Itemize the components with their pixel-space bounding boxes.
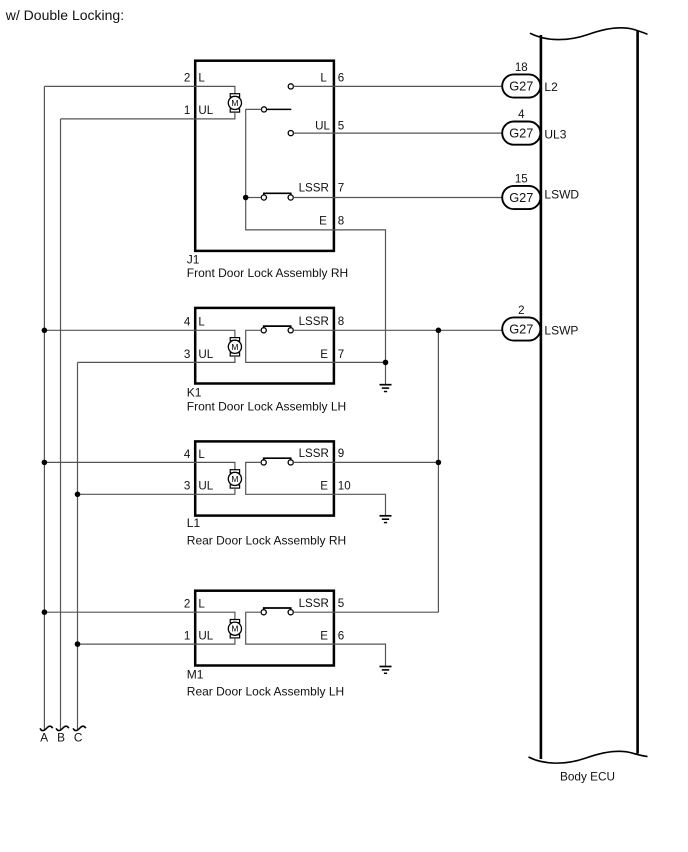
svg-text:J1: J1 (187, 252, 200, 266)
K1 name label (187, 400, 346, 414)
M1 unlock motor M (228, 620, 241, 638)
junction LSWP bus / L1 pin9 (436, 460, 442, 466)
svg-text:1: 1 (184, 630, 190, 643)
K1 pin 7 number (338, 348, 344, 361)
net LSWD label (544, 188, 579, 202)
node A label (40, 730, 48, 744)
J1 lock motor wire to pin 1 (195, 112, 235, 119)
wire break symbol B (56, 726, 69, 730)
M1 name label (187, 685, 344, 699)
svg-text:C: C (74, 730, 83, 744)
wire A vertical run (43, 86, 45, 729)
svg-text:Front Door Lock Assembly RH: Front Door Lock Assembly RH (187, 266, 348, 280)
svg-text:LSWP: LSWP (544, 324, 578, 338)
svg-text:6: 6 (338, 72, 344, 85)
svg-text:M: M (231, 98, 238, 108)
L1 pin 3 name UL (198, 480, 213, 493)
svg-text:1: 1 (184, 104, 190, 117)
ground G1 (K1/J1 E) (380, 385, 392, 392)
wire LSWP vertical bus (437, 330, 439, 612)
J1 pin 8 number (338, 214, 344, 227)
Body ECU label (560, 769, 615, 783)
ground G2 (L1 E) (380, 516, 392, 523)
svg-text:UL: UL (198, 630, 213, 643)
J1 lock motor M (228, 94, 241, 112)
M1 pin 6 number (338, 630, 344, 643)
K1 pin 8 number (338, 315, 344, 328)
wire ground stub K1 (385, 362, 387, 384)
svg-text:Body ECU: Body ECU (560, 769, 615, 783)
svg-text:L: L (198, 72, 205, 85)
L1 pin 9 number (338, 447, 344, 460)
wire break symbol A (40, 726, 53, 730)
wire L1 pin10 to ground (334, 494, 386, 515)
node C label (74, 730, 83, 744)
svg-text:4: 4 (184, 316, 191, 329)
Body ECU right boundary line (636, 31, 639, 754)
wire M1 pin1 to bus C (78, 643, 196, 645)
wire J1 pin2 to bus A (44, 85, 195, 87)
junction K1 E / J1 E ground (383, 360, 389, 366)
svg-text:E: E (320, 480, 328, 493)
svg-text:3: 3 (184, 480, 190, 493)
wire J1 pin7 to G27-15 (334, 197, 502, 199)
J1 pin 8 name E (319, 214, 327, 227)
svg-text:L: L (198, 598, 205, 611)
J1 wire LSSR switch to pin 7 (293, 197, 334, 199)
L1 unlock motor M (228, 470, 241, 488)
svg-text:6: 6 (338, 630, 344, 643)
L1 lock position switch LSSR (261, 458, 293, 465)
G27 pin 15 number (515, 174, 528, 186)
G27 pin 18 number (515, 62, 528, 74)
wire M1 pin2 to bus A (44, 611, 195, 613)
svg-text:M: M (231, 624, 238, 634)
junction bus C / M1 pin1 (75, 641, 81, 647)
junction bus A / K1 pin4 (42, 328, 48, 334)
wire L1 pin4 to bus A (44, 461, 195, 463)
L1 pin 3 number (184, 480, 190, 493)
K1 reference label (187, 386, 202, 400)
J1 selector arm (267, 108, 292, 110)
connector G27 pin 18 oval (502, 74, 540, 97)
connector box K1 (195, 308, 334, 384)
J1 pin 5 name UL (315, 119, 330, 132)
J1 L position contact (288, 84, 293, 89)
J1 pin 1 number (184, 104, 190, 117)
svg-text:B: B (57, 730, 65, 744)
svg-text:7: 7 (338, 182, 344, 195)
svg-text:7: 7 (338, 348, 344, 361)
M1 pin 6 name E (320, 630, 328, 643)
svg-text:9: 9 (338, 447, 344, 460)
wire L1 pin3 to bus C (78, 493, 196, 495)
L1 wire LSSR switch to pin (293, 461, 334, 463)
svg-text:L: L (198, 448, 205, 461)
M1 reference label (187, 668, 204, 682)
svg-text:UL: UL (315, 119, 330, 132)
J1 pin 6 name L (320, 72, 327, 85)
M1 pin 5 number (338, 597, 344, 610)
Body ECU left boundary line (540, 35, 543, 759)
svg-text:Rear Door Lock Assembly RH: Rear Door Lock Assembly RH (187, 534, 346, 548)
svg-text:2: 2 (184, 72, 190, 85)
svg-text:L: L (320, 72, 327, 85)
svg-text:G27: G27 (509, 79, 533, 94)
wire break symbol C (73, 726, 86, 730)
K1 pin 3 name UL (198, 348, 213, 361)
svg-text:UL: UL (198, 348, 213, 361)
svg-text:Front Door Lock Assembly LH: Front Door Lock Assembly LH (187, 400, 346, 414)
junction bus A / M1 pin2 (42, 609, 48, 615)
Body ECU bottom wavy edge (529, 751, 648, 763)
K1 pin 3 number (184, 348, 190, 361)
connector G27 pin 4 oval (502, 122, 540, 145)
svg-text:G27: G27 (509, 126, 533, 141)
J1 pin 7 name LSSR (299, 182, 329, 195)
connector box J1 (195, 61, 334, 251)
G27 pin 2 number (518, 305, 524, 317)
svg-text:5: 5 (338, 597, 344, 610)
wire J1 pin8 to K1 ground node (334, 230, 386, 363)
title label "w/ Double Locking:" (5, 7, 124, 23)
L1 pin 4 name L (198, 448, 205, 461)
wire J1 pin6 to G27-18 (334, 85, 502, 87)
svg-text:UL: UL (198, 104, 213, 117)
J1 selector common wire (246, 109, 334, 229)
svg-text:5: 5 (338, 119, 344, 132)
M1 pin 1 name UL (198, 630, 213, 643)
K1 motor wire to UL pin (195, 356, 235, 362)
svg-text:LSSR: LSSR (299, 182, 329, 195)
J1 lock motor wire from pin 2 (195, 86, 235, 93)
svg-text:18: 18 (515, 62, 528, 74)
svg-text:M: M (231, 474, 238, 484)
J1 reference label (187, 252, 200, 266)
K1 pin 7 name E (320, 348, 328, 361)
wire B vertical run (60, 119, 62, 729)
svg-text:UL3: UL3 (544, 127, 566, 141)
svg-text:E: E (320, 348, 328, 361)
J1 junction selector/LSSR (243, 195, 249, 201)
M1 lock position switch LSSR (261, 608, 293, 615)
K1 pin 8 name LSSR (299, 315, 329, 328)
svg-text:8: 8 (338, 315, 344, 328)
L1 motor wire from L pin (195, 462, 235, 469)
L1 switch common wire to E pin (246, 462, 334, 494)
svg-text:10: 10 (338, 480, 351, 493)
node B label (57, 730, 65, 744)
wire L1 pin9 to LSWP bus (334, 461, 439, 463)
ground G3 (M1 E) (380, 667, 392, 674)
L1 name label (187, 534, 346, 548)
L1 pin 9 name LSSR (299, 447, 329, 460)
svg-text:A: A (40, 730, 48, 744)
M1 wire LSSR switch to pin (293, 611, 334, 613)
wire M1 pin5 to LSWP bus (334, 611, 439, 613)
M1 pin 2 number (184, 598, 190, 611)
svg-text:LSWD: LSWD (544, 188, 579, 202)
svg-text:8: 8 (338, 214, 344, 227)
net UL3 label (544, 127, 566, 141)
svg-text:K1: K1 (187, 386, 202, 400)
wire M1 pin6 to ground (334, 644, 386, 666)
wire J1 pin5 to G27-4 (334, 132, 502, 134)
svg-text:G27: G27 (509, 322, 533, 337)
J1 pin 1 name UL (198, 104, 213, 117)
J1 wire contact L to pin 6 (293, 85, 334, 87)
J1 pin 7 number (338, 182, 344, 195)
wire K1 pin8 to G27-2 LSWP (334, 329, 502, 331)
svg-text:2: 2 (518, 305, 524, 317)
svg-text:4: 4 (184, 448, 191, 461)
J1 name label (187, 266, 348, 280)
svg-text:L2: L2 (544, 80, 558, 94)
M1 pin 1 number (184, 630, 190, 643)
J1 pin 2 name L (198, 72, 205, 85)
K1 lock position switch LSSR (261, 326, 293, 333)
junction bus C / L1 pin3 (75, 492, 81, 498)
J1 wire contact UL to pin 5 (293, 132, 334, 134)
svg-text:w/ Double Locking:: w/ Double Locking: (5, 7, 124, 23)
connector G27 pin 2 oval (502, 317, 540, 340)
M1 motor wire from L pin (195, 612, 235, 619)
junction bus A / L1 pin4 (42, 460, 48, 466)
L1 pin 10 name E (320, 480, 328, 493)
K1 switch common wire to E pin (246, 330, 334, 362)
M1 pin 2 name L (198, 598, 205, 611)
svg-text:4: 4 (518, 109, 525, 121)
wire K1 pin7 to ground node (334, 361, 386, 363)
svg-text:L1: L1 (187, 516, 201, 530)
K1 pin 4 name L (198, 316, 205, 329)
svg-text:Rear Door Lock Assembly LH: Rear Door Lock Assembly LH (187, 685, 344, 699)
L1 pin 10 number (338, 480, 351, 493)
wire K1 pin4 to bus A (44, 329, 195, 331)
svg-text:G27: G27 (509, 190, 533, 205)
M1 switch common wire to E pin (246, 612, 334, 644)
J1 lock position switch LSSR (248, 193, 293, 200)
M1 pin 5 name LSSR (299, 597, 329, 610)
svg-text:2: 2 (184, 598, 190, 611)
G27 pin 4 number (518, 109, 525, 121)
wire C vertical run (77, 362, 79, 729)
L1 pin 4 number (184, 448, 191, 461)
connector box L1 (195, 441, 334, 515)
connector box M1 (195, 591, 334, 666)
svg-text:M1: M1 (187, 668, 204, 682)
M1 motor wire to UL pin (195, 638, 235, 644)
L1 motor wire to UL pin (195, 488, 235, 494)
svg-text:UL: UL (198, 480, 213, 493)
junction LSWP bus / K1 pin8 (436, 328, 442, 334)
svg-text:LSSR: LSSR (299, 447, 329, 460)
J1 UL position contact (288, 131, 293, 136)
K1 unlock motor M (228, 338, 241, 356)
K1 wire LSSR switch to pin (293, 329, 334, 331)
svg-text:L: L (198, 316, 205, 329)
svg-text:E: E (320, 630, 328, 643)
svg-text:3: 3 (184, 348, 190, 361)
svg-text:LSSR: LSSR (299, 315, 329, 328)
J1 pin 5 number (338, 119, 344, 132)
L1 reference label (187, 516, 201, 530)
svg-text:M: M (231, 342, 238, 352)
net L2 label (544, 80, 558, 94)
svg-text:LSSR: LSSR (299, 597, 329, 610)
K1 pin 4 number (184, 316, 191, 329)
svg-text:E: E (319, 214, 327, 227)
wire J1 pin1 to bus B (61, 118, 196, 120)
K1 motor wire from L pin (195, 330, 235, 337)
net LSWP label (544, 324, 578, 338)
J1 pin 6 number (338, 72, 344, 85)
J1 pin 2 number (184, 72, 190, 85)
connector G27 pin 15 oval (502, 186, 540, 209)
J1 selector contact (261, 107, 266, 112)
Body ECU top wavy edge (530, 28, 648, 40)
wire K1 pin3 to bus C (78, 361, 196, 363)
svg-text:15: 15 (515, 174, 528, 186)
